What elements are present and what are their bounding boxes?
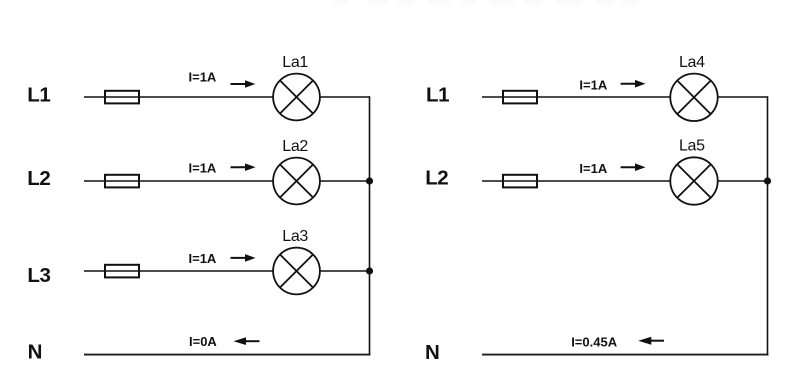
wire L2 (left) xyxy=(84,180,370,182)
wire L1 (right) xyxy=(482,96,768,98)
svg-text:N: N xyxy=(28,340,42,363)
svg-text:I=1A: I=1A xyxy=(189,69,217,84)
node: L3 junction on left bus xyxy=(366,267,373,274)
wire N (left) xyxy=(84,354,370,356)
current arrow (L3 left) xyxy=(231,254,256,262)
svg-text:I=1A: I=1A xyxy=(189,251,217,266)
wire N (right) xyxy=(482,354,768,356)
fuse F1 xyxy=(105,91,139,104)
svg-text:I=0.45A: I=0.45A xyxy=(571,335,618,350)
svg-text:L2: L2 xyxy=(425,166,448,189)
svg-text:N: N xyxy=(425,341,439,364)
lamp La5 xyxy=(670,157,717,204)
lamp La4 xyxy=(670,74,717,121)
svg-text:L2: L2 xyxy=(27,167,50,190)
svg-text:I=1A: I=1A xyxy=(579,161,607,176)
wire L2 (right) xyxy=(482,180,768,182)
svg-text:La3: La3 xyxy=(282,228,308,245)
fuse F2 xyxy=(105,175,139,188)
current arrow (L2 right) xyxy=(621,163,646,171)
faint cropped text remnant at top xyxy=(334,0,638,5)
wire L3 (left) xyxy=(84,270,370,272)
svg-text:La2: La2 xyxy=(282,138,308,155)
lamp La1 xyxy=(273,74,320,121)
fuse F5 xyxy=(503,175,537,188)
svg-text:La4: La4 xyxy=(679,54,705,71)
svg-text:I=0A: I=0A xyxy=(189,334,217,349)
svg-text:L3: L3 xyxy=(27,264,50,287)
wire L1 (left) xyxy=(84,96,370,98)
node: L2 junction on right bus xyxy=(764,177,771,184)
wire: right return bus (vertical) xyxy=(767,96,769,355)
lamp La3 xyxy=(273,248,320,295)
svg-text:La5: La5 xyxy=(679,137,705,154)
current arrow (right N, pointing left) xyxy=(638,337,664,345)
current arrow (L2 left) xyxy=(231,163,256,171)
svg-text:I=1A: I=1A xyxy=(579,77,607,92)
svg-text:L1: L1 xyxy=(27,84,50,107)
current arrow (L1 left) xyxy=(231,80,256,88)
fuse F3 xyxy=(105,265,139,278)
current arrow (left N, pointing left) xyxy=(234,337,260,345)
svg-text:I=1A: I=1A xyxy=(189,161,217,176)
svg-text:L1: L1 xyxy=(426,84,449,107)
current arrow (L1 right) xyxy=(621,80,646,88)
lamp La2 xyxy=(273,158,320,205)
wire: left return bus (vertical) xyxy=(369,96,371,355)
node: L2 junction on left bus xyxy=(366,177,373,184)
fuse F4 xyxy=(503,91,537,104)
svg-text:La1: La1 xyxy=(282,54,308,71)
